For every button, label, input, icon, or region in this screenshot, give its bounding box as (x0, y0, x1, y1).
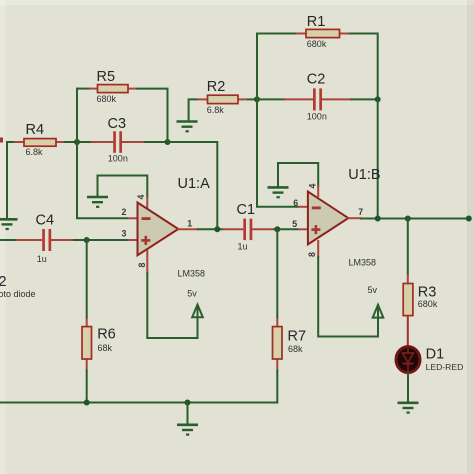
wire: R2 ground corner (189, 99, 199, 121)
wire: R3 net (407, 218, 409, 276)
svg-text:68k: 68k (288, 344, 303, 354)
pin 2 stub (128, 217, 138, 219)
node: output U1:A junction (214, 226, 220, 232)
ground (LED) (398, 403, 419, 413)
node: R3 top junction (405, 216, 411, 222)
wire: R7 bottom to bottom rail (0, 370, 277, 403)
svg-text:photo diode: photo diode (0, 289, 36, 299)
LED D1 (396, 347, 420, 373)
svg-text:5v: 5v (368, 285, 378, 295)
op-amp U1:A (138, 203, 179, 256)
svg-text:7: 7 (358, 207, 363, 217)
svg-text:6: 6 (293, 198, 298, 208)
svg-text:LM358: LM358 (178, 269, 206, 279)
svg-text:3: 3 (122, 228, 127, 238)
svg-text:8: 8 (137, 263, 147, 268)
svg-text:C2: C2 (307, 71, 326, 87)
node: pin7/riser junction (375, 216, 381, 222)
svg-text:4: 4 (308, 184, 318, 189)
op-amp U1:B (308, 192, 348, 245)
wire: R4 to C3 (64, 141, 92, 143)
capacitor C3 (91, 131, 145, 153)
photodiode D2 pin stub (0, 138, 3, 143)
resistor R7 (273, 318, 283, 371)
wire: U1:B pin4 ground net (278, 163, 318, 187)
resistor R1 (296, 29, 350, 37)
wire: U1:A pin8 to 5v (147, 250, 197, 338)
svg-text:5v: 5v (187, 289, 197, 299)
svg-text:R7: R7 (288, 329, 307, 345)
resistor R4 (14, 139, 66, 147)
node: R2/C2/R1/pin6 junction (254, 96, 260, 102)
power 5v (U1:B) (373, 305, 384, 334)
svg-text:R5: R5 (97, 69, 116, 85)
wire: C1 to pin5 (274, 228, 299, 230)
node: ground rail junction (185, 400, 191, 406)
pin 5 stub (298, 228, 308, 230)
ground (bottom rail) (177, 425, 198, 435)
resistor R2 (198, 95, 249, 103)
wire: R7 net (276, 228, 278, 319)
svg-text:C3: C3 (108, 116, 127, 132)
wire: R6 net (86, 239, 88, 319)
svg-text:100n: 100n (108, 153, 128, 163)
wire: output pin1 to C1 (177, 228, 223, 230)
wire: R5 top left (76, 88, 90, 90)
svg-text:LM358: LM358 (349, 258, 377, 268)
power 5v (U1:A) (192, 305, 203, 337)
resistor R5 (89, 85, 137, 93)
wire: C4 to pin3 (73, 239, 129, 241)
node: R4/R5/pin2 junction (74, 139, 80, 145)
resistor R6 (82, 318, 92, 371)
ground (R2) (177, 122, 198, 132)
svg-text:C4: C4 (36, 213, 55, 229)
svg-text:C1: C1 (237, 202, 256, 218)
wire: C3 to feedback junction (144, 141, 169, 143)
svg-text:680k: 680k (418, 299, 438, 309)
resistor R3 (403, 274, 413, 349)
wire: output pin7 (347, 217, 470, 219)
wire: pin2 net (77, 141, 129, 218)
wire: photodiode corner to ground (7, 142, 16, 219)
svg-text:680k: 680k (97, 94, 117, 104)
svg-text:U1:A: U1:A (178, 176, 211, 192)
svg-text:R6: R6 (97, 326, 116, 342)
svg-text:R1: R1 (307, 14, 326, 30)
node: R7 top junction (274, 226, 280, 232)
wire: R5 top right + right riser (136, 89, 168, 143)
svg-text:2: 2 (122, 207, 127, 217)
wire: R6 bottom (86, 370, 88, 404)
node: C2/R1 right junction (375, 96, 381, 102)
svg-text:1u: 1u (238, 241, 248, 251)
svg-text:100n: 100n (307, 112, 327, 122)
svg-text:R4: R4 (26, 122, 45, 138)
svg-text:D2: D2 (0, 274, 7, 290)
pin 4 stub U1:B (317, 185, 319, 197)
capacitor C4 (16, 229, 74, 251)
wire: R1 loop left riser (257, 34, 297, 101)
ground (photodiode) (0, 219, 18, 229)
wire: pin3 / C4 net (0, 239, 17, 241)
svg-text:4: 4 (136, 195, 146, 200)
svg-text:LED-RED: LED-RED (426, 362, 464, 372)
svg-text:6.8k: 6.8k (26, 147, 44, 157)
svg-text:U1:B: U1:B (348, 167, 380, 183)
node: C3/R5 right junction (165, 139, 171, 145)
ground (U1:B pin4) (268, 187, 289, 197)
wire: pin6 net (257, 98, 299, 206)
wire: ground stub (bottom rail) (187, 403, 189, 425)
wire: R2 to junction (247, 98, 258, 100)
wire: LED to ground (407, 372, 409, 403)
wire: feedback to output node (167, 142, 218, 230)
wire: R5 loop left riser (76, 88, 78, 143)
svg-text:R2: R2 (207, 79, 226, 95)
wire: R1 right riser (349, 34, 378, 101)
capacitor C2 (256, 88, 379, 110)
svg-text:8: 8 (307, 252, 317, 257)
pin 6 stub (298, 206, 308, 208)
pin 4 stub U1:A (146, 196, 148, 208)
node: output end junction (466, 216, 472, 222)
svg-text:1: 1 (187, 219, 192, 229)
capacitor C1 (222, 219, 275, 241)
svg-text:6.8k: 6.8k (207, 105, 225, 115)
svg-text:68k: 68k (98, 343, 113, 353)
wire: U1:A pin4 ground net (98, 176, 148, 199)
svg-text:D1: D1 (426, 347, 445, 363)
wire: right riser to output (377, 98, 379, 219)
wire: U1:B pin8 to 5v (318, 240, 378, 337)
node: R6 bottom junction (84, 400, 90, 406)
node: R6 top junction (84, 237, 90, 243)
pin 3 stub (128, 239, 138, 241)
svg-text:1u: 1u (37, 254, 47, 264)
svg-text:5: 5 (292, 219, 297, 229)
svg-text:680k: 680k (307, 39, 327, 49)
ground (U1:A pin4) (87, 197, 108, 207)
